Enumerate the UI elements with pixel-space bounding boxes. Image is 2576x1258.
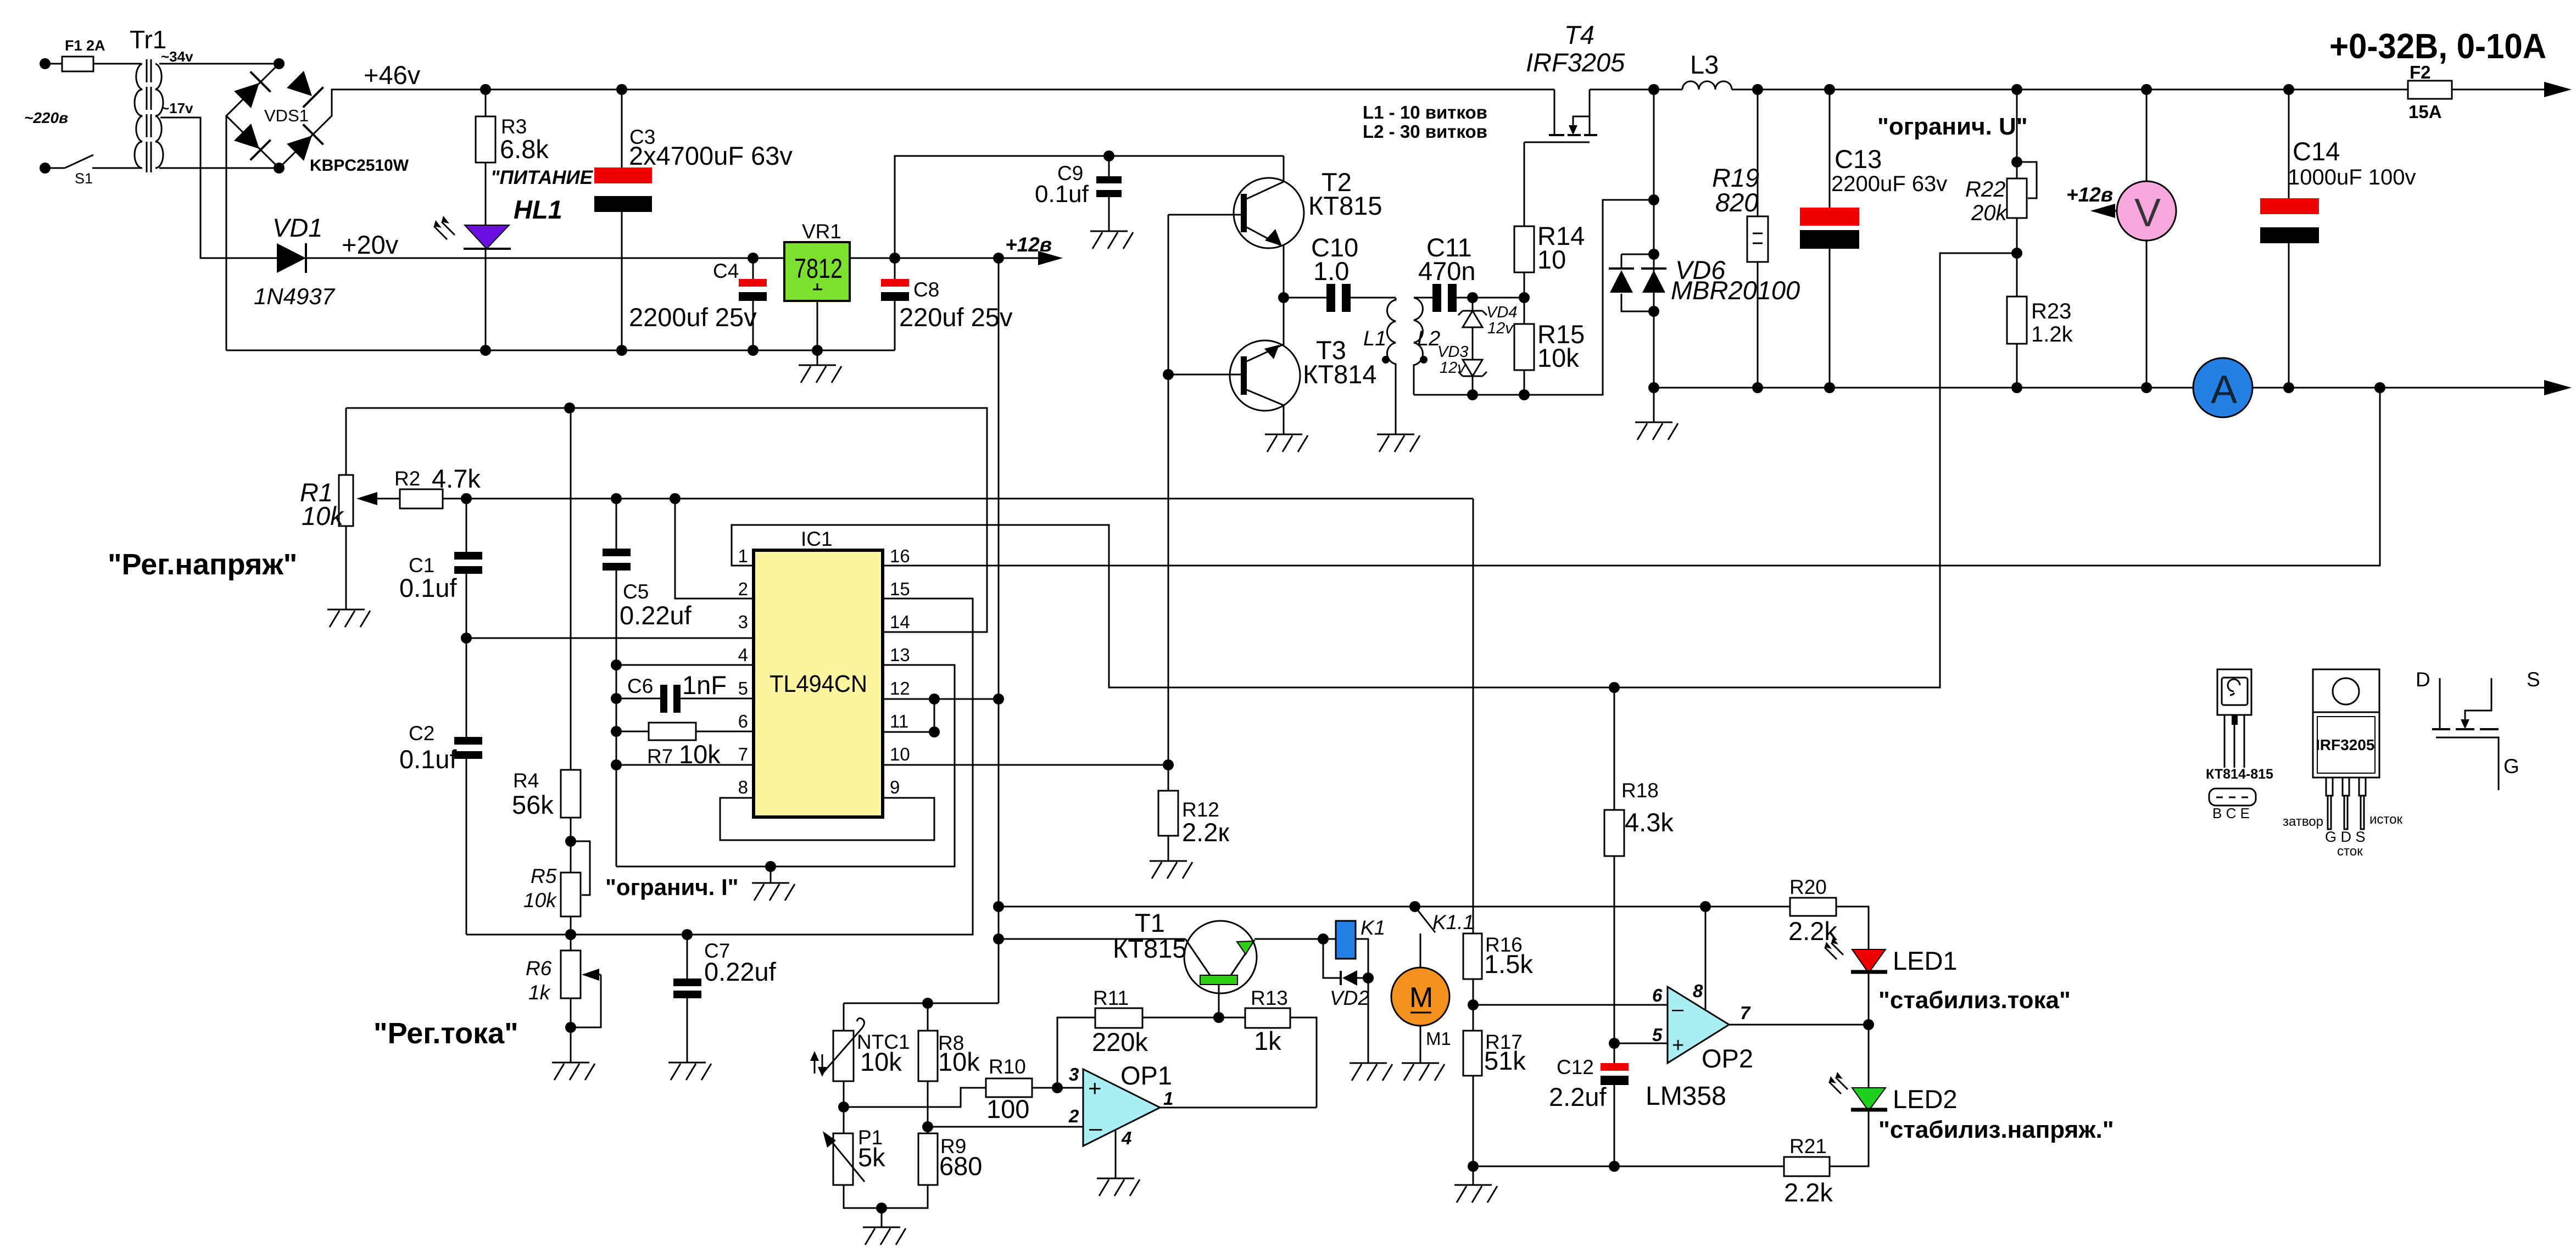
- capacitor C2: [454, 737, 482, 745]
- svg-text:K1: K1: [1361, 916, 1385, 939]
- svg-text:VD4: VD4: [1486, 304, 1517, 321]
- svg-text:+12в: +12в: [2066, 183, 2113, 206]
- svg-text:2.2к: 2.2к: [1182, 818, 1229, 847]
- potentiometer R6: [561, 951, 581, 998]
- svg-text:C13: C13: [1835, 144, 1882, 174]
- svg-text:L3: L3: [1690, 50, 1719, 79]
- wire +12v feed arrow to V meter: [2107, 210, 2117, 212]
- op-amp OP2 LM358: [1668, 987, 1729, 1063]
- svg-text:1k: 1k: [1254, 1026, 1281, 1055]
- svg-text:13: 13: [890, 645, 910, 665]
- svg-text:7: 7: [1740, 1003, 1751, 1023]
- capacitor C11: [1414, 297, 1432, 299]
- svg-text:М1: М1: [1426, 1028, 1451, 1049]
- svg-text:L2: L2: [1417, 327, 1440, 350]
- wire OP2 output: [1729, 1024, 1869, 1026]
- relay coil K1: [1336, 921, 1356, 959]
- MOSFET T4 IRF3205: [1554, 90, 1590, 135]
- svg-text:TL494CN: TL494CN: [770, 670, 867, 697]
- capacitor C12: [1601, 1063, 1629, 1071]
- wire switched node vertical: [1653, 90, 1655, 422]
- diode VDS1 top-left: [232, 71, 270, 109]
- ground under VR1: [817, 350, 818, 365]
- svg-text:+20v: +20v: [342, 230, 399, 259]
- svg-text:VD1: VD1: [272, 213, 322, 242]
- svg-text:+46v: +46v: [364, 60, 421, 90]
- wire pin8-9 loop: [720, 798, 934, 840]
- svg-text:0.1uf: 0.1uf: [399, 573, 457, 602]
- svg-text:R13: R13: [1251, 987, 1288, 1009]
- resistor R2: [374, 498, 400, 500]
- wire OP2 pin8 supply: [1705, 907, 1707, 1009]
- diode VDS1 bottom-right: [285, 124, 323, 162]
- svg-text:IC1: IC1: [801, 528, 833, 550]
- svg-text:КТ815: КТ815: [1308, 191, 1382, 220]
- inset KT814-815 package: [2217, 669, 2251, 715]
- svg-text:1.2k: 1.2k: [2031, 322, 2073, 346]
- svg-text:3: 3: [738, 612, 748, 632]
- svg-text:0.22uf: 0.22uf: [704, 957, 777, 986]
- svg-text:G D S: G D S: [2325, 829, 2366, 845]
- svg-text:0.22uf: 0.22uf: [620, 601, 692, 630]
- wire ground bus under IC to pin13: [616, 665, 955, 866]
- fuse F1: [62, 57, 93, 71]
- potentiometer P1: [843, 1107, 845, 1133]
- resistor R15: [1514, 324, 1534, 370]
- svg-text:7812: 7812: [794, 253, 843, 284]
- svg-text:R22: R22: [1965, 177, 2005, 202]
- svg-text:C2: C2: [409, 722, 434, 745]
- svg-text:220uf 25v: 220uf 25v: [899, 303, 1013, 332]
- wire R2 net: [443, 498, 1473, 500]
- capacitor C5: [616, 499, 617, 549]
- junction dots ground rail: [480, 345, 491, 356]
- svg-text:A: A: [2211, 368, 2237, 412]
- svg-text:8: 8: [738, 777, 748, 797]
- svg-text:VD3: VD3: [1437, 343, 1468, 361]
- switch S1: [65, 155, 141, 168]
- inductor L3: [1682, 81, 1732, 90]
- thermistor NTC1: [833, 1031, 854, 1081]
- svg-text:+12в: +12в: [1005, 233, 1052, 256]
- wire +12v vertical feed: [998, 258, 1000, 1003]
- node AC input top terminal: [40, 58, 51, 69]
- svg-text:2x4700uF 63v: 2x4700uF 63v: [629, 141, 793, 170]
- wire pin4: [616, 664, 754, 666]
- wire OP1 output: [1160, 1107, 1317, 1109]
- capacitor C8: [889, 253, 900, 264]
- svg-text:затвор: затвор: [2283, 814, 2323, 829]
- resistor R21: [1784, 1157, 1830, 1176]
- svg-text:R21: R21: [1789, 1135, 1827, 1158]
- svg-text:6.8k: 6.8k: [500, 135, 549, 164]
- LED HL1: [465, 225, 509, 249]
- svg-text:S: S: [2527, 668, 2540, 691]
- wire ground rail y638: [226, 350, 895, 351]
- svg-text:~220в: ~220в: [24, 109, 68, 126]
- svg-text:"Рег.тока": "Рег.тока": [373, 1017, 518, 1050]
- resistor R12: [1168, 765, 1169, 791]
- svg-text:C4: C4: [713, 260, 739, 282]
- resistor R13: [1245, 1008, 1290, 1028]
- svg-text:R5: R5: [531, 865, 557, 887]
- svg-text:4.3k: 4.3k: [1625, 808, 1674, 837]
- svg-text:4.7k: 4.7k: [432, 464, 481, 493]
- svg-text:OP1: OP1: [1120, 1061, 1172, 1090]
- svg-text:2.2k: 2.2k: [1784, 1178, 1833, 1207]
- svg-text:L2 - 30 витков: L2 - 30 витков: [1363, 121, 1487, 142]
- relay contact K1.1: [1415, 907, 1435, 932]
- svg-text:1.5k: 1.5k: [1484, 949, 1533, 979]
- potentiometer R5: [571, 841, 590, 895]
- svg-text:9: 9: [890, 777, 900, 797]
- svg-text:3: 3: [1069, 1064, 1079, 1084]
- svg-text:VR1: VR1: [802, 220, 841, 243]
- wire C2/R5/C7 to pin15: [466, 599, 973, 935]
- svg-text:15: 15: [890, 579, 910, 599]
- svg-text:IRF3205: IRF3205: [1526, 48, 1625, 77]
- svg-text:220k: 220k: [1092, 1027, 1148, 1056]
- wire: [93, 63, 141, 65]
- svg-text:680: 680: [939, 1151, 982, 1181]
- LED LED2: [1868, 1025, 1870, 1088]
- svg-text:+: +: [1088, 1075, 1102, 1101]
- svg-text:0.1uf: 0.1uf: [399, 745, 457, 774]
- svg-text:6: 6: [1652, 985, 1663, 1005]
- voltmeter V: [2146, 90, 2148, 388]
- svg-text:6: 6: [738, 711, 748, 731]
- wire output negative rail: [1654, 387, 2546, 389]
- svg-text:VD2: VD2: [1330, 987, 1369, 1009]
- resistor R11: [1057, 1017, 1095, 1088]
- svg-text:F1 2A: F1 2A: [65, 37, 105, 54]
- svg-text:R10: R10: [989, 1055, 1026, 1078]
- svg-text:4: 4: [1121, 1128, 1131, 1148]
- svg-text:G: G: [2503, 755, 2519, 778]
- svg-text:10k: 10k: [860, 1047, 902, 1076]
- capacitor C3: [616, 84, 627, 95]
- svg-text:R6: R6: [526, 957, 552, 980]
- wire pin5 to OP2: [1614, 1043, 1668, 1044]
- resistor R20: [1705, 906, 1790, 908]
- capacitor C1: [466, 499, 467, 552]
- svg-text:~34v: ~34v: [161, 48, 193, 65]
- wire +20v line: [306, 258, 784, 259]
- motor M1: [1420, 933, 1421, 968]
- svg-text:12: 12: [890, 678, 910, 698]
- svg-text:1.0: 1.0: [1313, 256, 1349, 286]
- svg-text:14: 14: [890, 612, 910, 632]
- svg-text:LED1: LED1: [1893, 946, 1958, 975]
- svg-text:R4: R4: [513, 769, 539, 792]
- svg-text:V: V: [2134, 191, 2161, 235]
- svg-text:2: 2: [738, 579, 748, 599]
- wire VREF line: [346, 408, 987, 632]
- svg-text:D: D: [2416, 668, 2430, 691]
- svg-text:IRF3205: IRF3205: [2316, 736, 2374, 753]
- svg-text:L1: L1: [1363, 327, 1386, 350]
- HL1 emission arrows: [434, 216, 455, 239]
- svg-text:+: +: [1672, 1034, 1684, 1057]
- wire +12v branch: [895, 156, 1284, 258]
- svg-text:–: –: [1672, 998, 1684, 1021]
- diode VDS1 bottom-left: [232, 122, 270, 160]
- wire pin10 to driver bases: [883, 764, 1168, 766]
- diode VD2: [1323, 939, 1341, 978]
- resistor R16: [1473, 499, 1474, 933]
- svg-text:5k: 5k: [858, 1143, 885, 1172]
- svg-text:16: 16: [890, 546, 910, 566]
- svg-text:HL1: HL1: [514, 195, 562, 224]
- inductor L1 winding: [1387, 298, 1396, 434]
- svg-text:L1 - 10 витков: L1 - 10 витков: [1363, 102, 1487, 122]
- svg-text:10k: 10k: [1537, 343, 1579, 372]
- wire pin3 line: [466, 638, 754, 639]
- svg-text:сток: сток: [2337, 844, 2363, 859]
- resistor R17: [1463, 1031, 1482, 1076]
- svg-text:R23: R23: [2031, 299, 2071, 323]
- resistor R10: [986, 1078, 1032, 1097]
- svg-text:7: 7: [738, 744, 748, 764]
- wire T1 emitter to relay: [1254, 938, 1336, 940]
- svg-text:C8: C8: [913, 278, 939, 301]
- resistor R14: [1524, 142, 1525, 226]
- resistor R23: [2007, 297, 2027, 344]
- svg-text:56k: 56k: [512, 790, 554, 819]
- svg-text:470n: 470n: [1418, 256, 1476, 286]
- resistor R18: [1614, 687, 1615, 810]
- inset IRF3205 package: [2313, 669, 2379, 712]
- svg-text:KBPC2510W: KBPC2510W: [310, 156, 409, 175]
- svg-text:"огранич. U": "огранич. U": [1877, 113, 2028, 140]
- svg-text:"стабилиз.тока": "стабилиз.тока": [1878, 987, 2071, 1014]
- svg-text:исток: исток: [2369, 812, 2402, 827]
- svg-text:4: 4: [738, 645, 748, 665]
- svg-text:T1: T1: [1135, 908, 1165, 937]
- resistor R7: [616, 731, 649, 733]
- wire analog ground rail: [1473, 1166, 1784, 1167]
- inductor L2 winding: [1414, 298, 1423, 395]
- svg-text:1nF: 1nF: [682, 670, 727, 700]
- svg-text:LM358: LM358: [1646, 1082, 1726, 1111]
- wire feedback tap to TL494 pin1: [732, 253, 2017, 687]
- ammeter A: [2193, 358, 2252, 417]
- capacitor C13: [1829, 90, 1831, 208]
- transistor T2 KT815: [1234, 178, 1304, 248]
- wire T1 collector line: [999, 938, 1185, 940]
- potentiometer R22: [2016, 90, 2018, 178]
- diode VD1 1N4937: [277, 243, 306, 273]
- wire +12v output with arrow: [993, 253, 1004, 264]
- svg-text:1N4937: 1N4937: [254, 283, 336, 309]
- capacitor C9: [1103, 150, 1114, 161]
- svg-text:2200uf 25v: 2200uf 25v: [629, 303, 757, 332]
- resistor R3: [480, 84, 491, 95]
- wire pin2 riser: [675, 499, 754, 599]
- svg-text:2: 2: [1068, 1106, 1079, 1126]
- svg-text:100: 100: [986, 1094, 1029, 1123]
- bridge rectifier VDS1 KBPC2510W: [274, 58, 285, 69]
- svg-text:VDS1: VDS1: [264, 106, 309, 125]
- svg-text:–: –: [1089, 1115, 1102, 1140]
- wire pin7: [616, 764, 754, 766]
- capacitor C6: [616, 698, 660, 700]
- wire driver common rail: [1414, 200, 1654, 395]
- svg-text:"огранич. I": "огранич. I": [605, 874, 739, 900]
- dual diode VD6 MBR20100: [1621, 254, 1654, 311]
- svg-text:+0-32В, 0-10А: +0-32В, 0-10А: [2329, 26, 2546, 66]
- wire divider tap to OP2 pin6: [1473, 1004, 1668, 1006]
- svg-text:В С Е: В С Е: [2212, 805, 2250, 821]
- svg-text:10k: 10k: [302, 501, 344, 530]
- svg-text:1: 1: [1163, 1088, 1173, 1109]
- svg-text:11: 11: [890, 711, 908, 731]
- svg-text:КТ815: КТ815: [1113, 934, 1187, 963]
- svg-text:10: 10: [1537, 245, 1566, 274]
- diode VDS1 top-right: [285, 69, 323, 107]
- svg-text:~17v: ~17v: [161, 100, 193, 116]
- zener VD4: [1467, 292, 1478, 303]
- svg-text:M: M: [1409, 982, 1433, 1014]
- svg-text:"Рег.напряж": "Рег.напряж": [108, 548, 297, 581]
- svg-text:1000uF 100v: 1000uF 100v: [2288, 165, 2416, 189]
- svg-text:КТ814-815: КТ814-815: [2206, 767, 2273, 782]
- wire R8/R9 node to OP1 pin2: [928, 1126, 1083, 1128]
- svg-text:820: 820: [1715, 188, 1758, 217]
- capacitor C4: [748, 253, 759, 264]
- svg-text:"стабилиз.напряж.": "стабилиз.напряж.": [1878, 1116, 2114, 1143]
- svg-text:R18: R18: [1621, 779, 1659, 802]
- wire +46v rail right of MOSFET: [1590, 89, 2408, 91]
- transistor T1 KT815: [1184, 921, 1257, 993]
- node AC input bottom terminal: [40, 163, 51, 174]
- wire ground drop from bridge left node: [226, 116, 227, 350]
- wire NTC/R8 supply rail: [844, 1003, 999, 1031]
- svg-text:10k: 10k: [938, 1047, 980, 1076]
- svg-text:C5: C5: [623, 580, 649, 603]
- potentiometer R1: [345, 408, 347, 475]
- fuse F2: [2408, 81, 2452, 99]
- capacitor C14: [2288, 90, 2290, 198]
- svg-text:5: 5: [1652, 1025, 1663, 1045]
- svg-text:C6: C6: [627, 675, 653, 697]
- svg-text:R2: R2: [394, 467, 420, 490]
- svg-text:0.1uf: 0.1uf: [1035, 181, 1089, 208]
- wire relay supply line: [999, 906, 1705, 908]
- LED LED1: [1852, 949, 1886, 973]
- svg-text:20k: 20k: [1971, 201, 2008, 225]
- op-amp OP1: [1083, 1069, 1160, 1146]
- svg-text:"ПИТАНИЕ": "ПИТАНИЕ": [490, 167, 602, 188]
- capacitor C7: [687, 935, 688, 979]
- resistor R19: [1757, 90, 1759, 216]
- resistor R4: [570, 408, 572, 770]
- svg-text:R20: R20: [1789, 876, 1827, 898]
- svg-text:1: 1: [738, 546, 748, 566]
- wire: [45, 167, 65, 169]
- svg-text:2200uF 63v: 2200uF 63v: [1831, 172, 1947, 196]
- node T2/T3 emitters: [1278, 292, 1289, 303]
- zener VD3: [1463, 360, 1482, 376]
- svg-text:2.2k: 2.2k: [1788, 916, 1837, 946]
- svg-text:C14: C14: [2293, 137, 2340, 166]
- svg-text:LED2: LED2: [1893, 1084, 1958, 1114]
- svg-text:12v: 12v: [1487, 320, 1514, 337]
- svg-text:15A: 15A: [2408, 102, 2442, 122]
- svg-text:2.2uf: 2.2uf: [1549, 1082, 1607, 1111]
- svg-text:C12: C12: [1557, 1056, 1594, 1078]
- svg-text:10k: 10k: [523, 889, 557, 912]
- svg-text:1k: 1k: [528, 981, 551, 1004]
- svg-text:T4: T4: [1564, 20, 1594, 49]
- IC1 TL494CN: [754, 550, 883, 817]
- svg-text:10: 10: [890, 744, 910, 764]
- regulator VR1 7812: [784, 242, 850, 301]
- svg-text:S1: S1: [75, 170, 93, 187]
- wire T2/T3 base tie: [1168, 215, 1169, 768]
- svg-text:12v: 12v: [1440, 359, 1466, 377]
- wire OP1 pin4 ground: [1115, 1130, 1117, 1178]
- svg-text:OP2: OP2: [1702, 1044, 1753, 1073]
- capacitor C10: [1284, 297, 1326, 299]
- svg-text:КТ814: КТ814: [1303, 360, 1377, 389]
- resistor R8: [927, 1003, 929, 1031]
- svg-text:8: 8: [1693, 981, 1703, 1001]
- wire secondary bottom: [159, 167, 279, 169]
- wire pin11-12 tie: [883, 699, 999, 732]
- svg-text:R11: R11: [1093, 987, 1129, 1009]
- wire: [45, 63, 62, 65]
- svg-text:51k: 51k: [1484, 1046, 1526, 1075]
- svg-text:MBR20100: MBR20100: [1671, 276, 1800, 305]
- wire NTC tap to R10: [844, 1088, 986, 1107]
- svg-text:K1.1: K1.1: [1432, 911, 1474, 933]
- transistor T3 KT814: [1230, 340, 1300, 411]
- svg-text:5: 5: [738, 678, 748, 698]
- resistor R9: [918, 1133, 938, 1185]
- wire pin16 sense line: [883, 388, 2380, 566]
